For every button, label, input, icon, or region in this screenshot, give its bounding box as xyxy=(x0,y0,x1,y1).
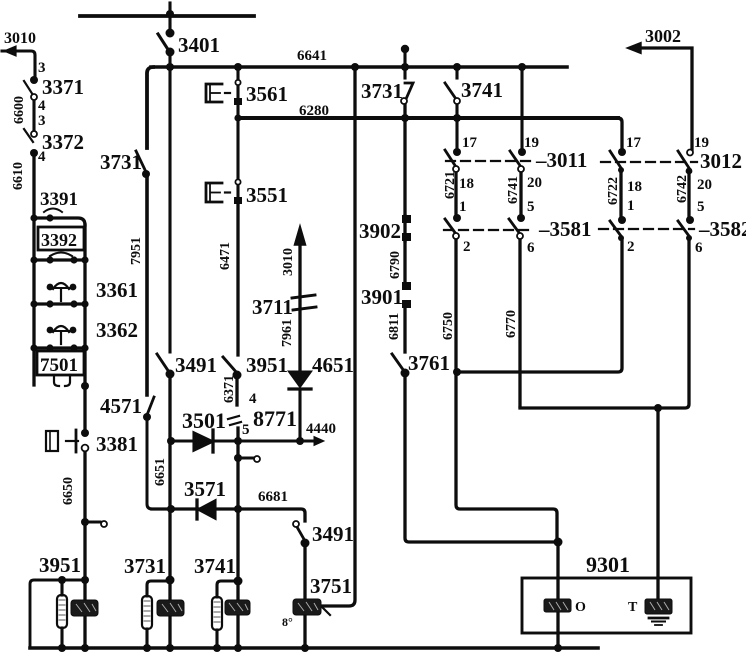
svg-text:1: 1 xyxy=(459,199,467,215)
svg-text:3491: 3491 xyxy=(312,522,354,546)
svg-text:6750: 6750 xyxy=(441,312,456,340)
svg-text:T: T xyxy=(628,600,638,615)
svg-text:7501: 7501 xyxy=(40,355,78,376)
svg-text:3571: 3571 xyxy=(184,477,226,501)
svg-text:3741: 3741 xyxy=(194,554,236,578)
svg-text:3741: 3741 xyxy=(461,78,503,102)
svg-text:7951: 7951 xyxy=(129,237,144,265)
svg-text:3010: 3010 xyxy=(4,30,36,47)
svg-text:–3581: –3581 xyxy=(538,217,592,241)
svg-text:6742: 6742 xyxy=(675,175,690,203)
svg-text:6280: 6280 xyxy=(299,103,329,119)
svg-text:7961: 7961 xyxy=(280,319,295,347)
svg-text:3392: 3392 xyxy=(41,230,77,250)
svg-text:8771: 8771 xyxy=(253,406,297,431)
svg-text:6721: 6721 xyxy=(443,171,458,199)
svg-text:4: 4 xyxy=(38,149,46,165)
svg-text:4651: 4651 xyxy=(312,353,354,377)
svg-text:8°: 8° xyxy=(282,615,293,629)
svg-text:6641: 6641 xyxy=(297,48,327,64)
svg-text:6371: 6371 xyxy=(222,375,237,403)
svg-text:3901: 3901 xyxy=(361,285,403,309)
svg-text:2: 2 xyxy=(627,239,635,255)
svg-text:5: 5 xyxy=(527,199,535,215)
svg-text:3731: 3731 xyxy=(361,79,403,103)
svg-text:3761: 3761 xyxy=(408,351,450,375)
svg-text:3491: 3491 xyxy=(175,353,217,377)
svg-text:4571: 4571 xyxy=(100,394,142,418)
svg-text:5: 5 xyxy=(242,422,250,438)
svg-text:6741: 6741 xyxy=(506,176,521,204)
svg-text:3711: 3711 xyxy=(252,295,293,319)
svg-text:6681: 6681 xyxy=(258,489,288,505)
svg-text:3401: 3401 xyxy=(178,33,220,57)
svg-text:3731: 3731 xyxy=(100,150,142,174)
svg-text:3381: 3381 xyxy=(96,432,138,456)
svg-text:20: 20 xyxy=(527,175,542,191)
svg-text:6600: 6600 xyxy=(12,96,27,124)
svg-text:6770: 6770 xyxy=(504,310,519,338)
svg-text:4440: 4440 xyxy=(306,421,336,437)
svg-text:3371: 3371 xyxy=(42,75,84,99)
svg-text:4: 4 xyxy=(38,98,46,114)
svg-text:19: 19 xyxy=(524,135,539,151)
svg-text:–3582: –3582 xyxy=(698,217,746,241)
svg-text:3561: 3561 xyxy=(246,82,288,106)
svg-text:3731: 3731 xyxy=(124,554,166,578)
svg-text:3002: 3002 xyxy=(645,26,681,46)
svg-text:6471: 6471 xyxy=(218,242,233,270)
svg-text:3951: 3951 xyxy=(246,353,288,377)
svg-text:3551: 3551 xyxy=(246,183,288,207)
svg-text:6722: 6722 xyxy=(606,177,621,205)
svg-text:18: 18 xyxy=(459,176,474,192)
svg-text:3951: 3951 xyxy=(39,553,81,577)
svg-text:20: 20 xyxy=(697,177,712,193)
svg-text:3: 3 xyxy=(38,60,46,76)
svg-text:3501: 3501 xyxy=(182,408,226,433)
svg-text:6811: 6811 xyxy=(387,313,402,340)
svg-text:3361: 3361 xyxy=(96,278,138,302)
svg-text:–3011: –3011 xyxy=(535,148,587,172)
svg-text:2: 2 xyxy=(463,239,471,255)
svg-text:3902: 3902 xyxy=(359,219,401,243)
svg-text:1: 1 xyxy=(627,198,635,214)
svg-text:17: 17 xyxy=(462,135,478,151)
svg-text:17: 17 xyxy=(626,135,642,151)
svg-text:6610: 6610 xyxy=(11,162,26,190)
svg-text:3751: 3751 xyxy=(310,574,352,598)
svg-text:6651: 6651 xyxy=(153,458,168,486)
svg-text:O: O xyxy=(575,600,586,615)
svg-text:19: 19 xyxy=(694,135,709,151)
svg-text:6790: 6790 xyxy=(388,251,403,279)
svg-text:18: 18 xyxy=(627,179,642,195)
svg-text:6650: 6650 xyxy=(61,477,76,505)
svg-text:3: 3 xyxy=(38,113,46,129)
svg-text:5: 5 xyxy=(697,199,705,215)
svg-text:3391: 3391 xyxy=(40,189,78,210)
svg-text:3012: 3012 xyxy=(700,149,742,173)
svg-text:6: 6 xyxy=(695,240,703,256)
svg-text:3010: 3010 xyxy=(281,248,296,276)
svg-text:3362: 3362 xyxy=(96,318,138,342)
svg-text:4: 4 xyxy=(249,391,257,407)
svg-text:3372: 3372 xyxy=(42,130,84,154)
svg-text:9301: 9301 xyxy=(586,552,630,577)
svg-text:6: 6 xyxy=(527,240,535,256)
